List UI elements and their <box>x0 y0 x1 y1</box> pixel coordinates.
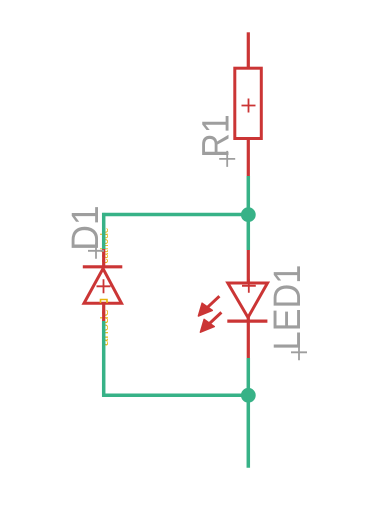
wire: green left branch down to D1 <box>102 213 106 250</box>
wire: red stub below R1 <box>247 140 250 177</box>
wire: green left branch D1 to bottom <box>102 321 106 397</box>
LED1 origin cross <box>242 279 256 293</box>
wire: top red stub to R1 <box>247 32 250 68</box>
diode D1 triangle <box>84 269 122 304</box>
diode D1 origin cross <box>97 279 111 293</box>
svg-text:R1: R1 <box>194 114 237 157</box>
wire: green bottom horizontal to node B <box>102 394 248 398</box>
LED1 triangle <box>228 283 268 318</box>
LED1 light arrow 1 <box>198 296 219 316</box>
LED1 cathode bar <box>227 320 267 323</box>
LED1 light arrow 2 <box>200 312 221 332</box>
node A junction dot <box>241 207 256 222</box>
LED1 top pin (anode) <box>247 250 250 284</box>
LED1 bottom pin (cathode) <box>247 315 250 358</box>
wire: green bottom stub <box>247 395 251 468</box>
wire: green net R1 to node A <box>247 176 251 250</box>
svg-text:LED1: LED1 <box>266 265 309 351</box>
diode D1 top pin (cathode) <box>102 249 105 268</box>
wire: green net node A to left branch <box>102 213 248 217</box>
diode D1 pin 1 marker (yellow) <box>101 300 108 304</box>
resistor R1 body <box>235 68 261 138</box>
wire: green LED1 to node B <box>247 358 251 396</box>
label R1 origin cross <box>219 151 235 167</box>
node B junction dot <box>241 388 256 403</box>
diode D1 cathode bar <box>83 265 123 268</box>
svg-text:D1: D1 <box>64 205 107 251</box>
resistor R1 origin cross <box>242 99 256 113</box>
diode D1 bottom pin (anode) <box>102 303 105 321</box>
label LED1 origin cross <box>291 344 307 360</box>
label D1 origin cross <box>88 243 104 259</box>
